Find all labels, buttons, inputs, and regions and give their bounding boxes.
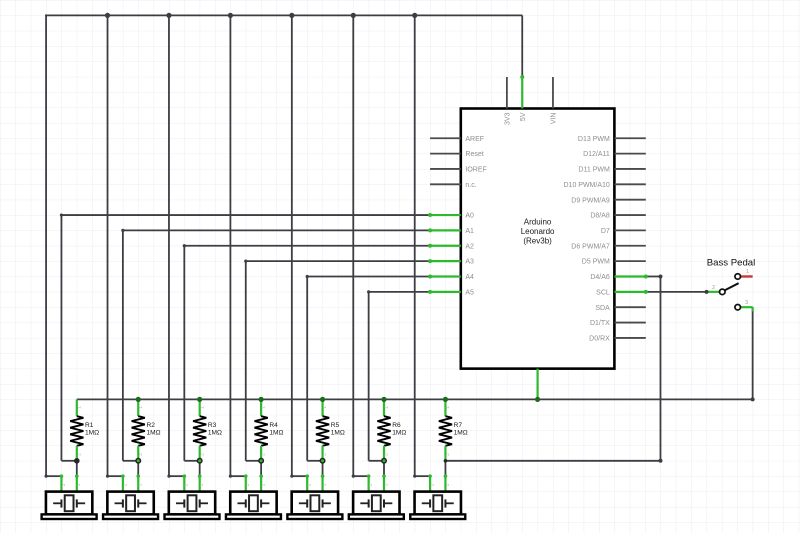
svg-text:1: 1: [384, 406, 389, 409]
svg-text:R7: R7: [454, 422, 463, 429]
svg-text:D13 PWM: D13 PWM: [578, 136, 610, 143]
wire R2 junction down to sensor pin 1: [137, 461, 139, 476]
svg-text:1: 1: [261, 406, 266, 409]
svg-text:R5: R5: [331, 422, 340, 429]
wire 5V bus drop to 5V pin: [521, 15, 523, 77]
wire 5V feed horizontal to sensor 4 left pin: [230, 475, 245, 477]
svg-text:D5 PWM: D5 PWM: [582, 259, 610, 266]
svg-text:2: 2: [122, 483, 127, 486]
piezo sensor 3: [165, 476, 220, 519]
switch pin 2 terminal: [720, 289, 726, 295]
switch lever: [725, 283, 739, 290]
svg-text:2: 2: [245, 483, 250, 486]
svg-text:1: 1: [445, 406, 450, 409]
svg-text:2: 2: [445, 453, 450, 456]
wire A1 horizontal to Arduino: [123, 229, 430, 231]
pin IOREF (left): [430, 167, 487, 174]
IC Arduino Leonardo (Rev3b) body: [461, 109, 615, 369]
svg-text:2: 2: [184, 483, 189, 486]
wire 5V top bus horizontal: [46, 14, 522, 16]
wire A0 horizontal to Arduino: [61, 214, 430, 216]
svg-text:1: 1: [261, 483, 266, 486]
pin D11 PWM (right): [578, 167, 645, 174]
bend dots on 5V feeds at sensor row: [44, 475, 416, 478]
svg-text:A1: A1: [465, 228, 474, 235]
wire A3 stub to R4 bottom junction: [246, 460, 261, 462]
wire 5V feed vertical sensor 3: [168, 15, 170, 476]
svg-text:5V: 5V: [520, 112, 527, 121]
svg-text:1: 1: [199, 406, 204, 409]
pin D6 PWM/A7 (right): [571, 243, 646, 250]
svg-text:Bass Pedal: Bass Pedal: [707, 257, 756, 268]
switch pin 3 terminal: [735, 304, 741, 310]
pin AREF (left): [430, 136, 484, 143]
svg-text:1MΩ: 1MΩ: [454, 430, 468, 437]
svg-text:n.c.: n.c.: [465, 182, 476, 189]
wire D4/A6 stub from pin: [646, 275, 661, 277]
svg-text:A3: A3: [465, 259, 474, 266]
piezo sensor 4: [226, 476, 281, 519]
wire R5 junction down to sensor pin 1: [322, 461, 324, 476]
wire A0 vertical feed: [60, 215, 62, 461]
svg-text:1MΩ: 1MΩ: [85, 430, 99, 437]
pin GND (bottom): [536, 369, 538, 400]
svg-text:2: 2: [322, 453, 327, 456]
svg-text:1: 1: [322, 406, 327, 409]
svg-text:R3: R3: [208, 422, 217, 429]
resistor R1 1M&#937;: [70, 399, 99, 460]
wire 5V feed horizontal to sensor 1 left pin: [46, 475, 61, 477]
svg-text:A0: A0: [465, 213, 474, 220]
svg-text:D0/RX: D0/RX: [589, 336, 610, 343]
piezo sensor 7: [410, 476, 465, 519]
svg-text:1: 1: [76, 483, 81, 486]
svg-text:D4/A6: D4/A6: [590, 274, 610, 281]
svg-text:1: 1: [199, 483, 204, 486]
wire A3 horizontal to Arduino: [246, 260, 430, 262]
wire D4/A6 horizontal to R7 bottom junction: [445, 460, 660, 462]
wire A2 stub to R3 bottom junction: [184, 460, 199, 462]
svg-text:D8/A8: D8/A8: [590, 213, 610, 220]
piezo sensor 6: [349, 476, 404, 519]
wire R6 junction down to sensor pin 1: [383, 461, 385, 476]
wire 5V feed vertical sensor 7: [414, 15, 416, 476]
junction dot SCL / switch pin2 leg: [705, 290, 709, 294]
bend dots on A-wires: [60, 213, 370, 293]
junction dots on 5V top bus: [45, 13, 417, 18]
svg-text:A5: A5: [465, 289, 474, 296]
pin D0/RX (right): [589, 336, 646, 343]
svg-text:R1: R1: [85, 422, 94, 429]
svg-text:3: 3: [745, 300, 748, 306]
wire A4 stub to R5 bottom junction: [307, 460, 322, 462]
wire SCL to switch pin 2: [646, 291, 707, 293]
svg-text:2: 2: [199, 453, 204, 456]
green leg-end dots A0-A5: [428, 213, 432, 294]
pin D4/A6 (right): [590, 274, 645, 281]
pin A5 (left): [430, 289, 474, 296]
svg-text:2: 2: [138, 453, 143, 456]
wire R4 junction down to sensor pin 1: [260, 461, 262, 476]
svg-text:R4: R4: [269, 422, 278, 429]
wire A5 vertical feed: [368, 292, 370, 461]
svg-text:D12/A11: D12/A11: [583, 151, 610, 158]
resistor R7 1M&#937;: [439, 399, 468, 460]
svg-text:1MΩ: 1MΩ: [331, 430, 345, 437]
wire A1 vertical feed: [122, 230, 124, 460]
svg-text:D7: D7: [601, 228, 610, 235]
pin A4 (left): [430, 274, 474, 281]
wire 5V feed vertical sensor 4: [229, 15, 231, 476]
svg-text:Reset: Reset: [465, 151, 483, 158]
green leg-end dots sensor pins: [60, 474, 448, 478]
svg-text:1MΩ: 1MΩ: [392, 430, 406, 437]
svg-text:A4: A4: [465, 274, 474, 281]
svg-text:R6: R6: [392, 422, 401, 429]
pin D8/A8 (right): [590, 213, 645, 220]
svg-text:D11 PWM: D11 PWM: [578, 167, 610, 174]
svg-text:D6 PWM/A7: D6 PWM/A7: [571, 243, 610, 250]
svg-text:A2: A2: [465, 243, 474, 250]
svg-text:2: 2: [76, 453, 81, 456]
svg-text:2: 2: [712, 285, 715, 291]
bend dots D4/A6 route: [658, 274, 662, 462]
wire A4 vertical feed: [306, 276, 308, 460]
svg-text:1MΩ: 1MΩ: [269, 430, 283, 437]
svg-text:1: 1: [445, 483, 450, 486]
piezo sensor 2: [103, 476, 158, 519]
resistor R3 1M&#937;: [193, 399, 222, 460]
resistor R6 1M&#937;: [377, 399, 406, 460]
wire 5V feed vertical sensor 6: [352, 15, 354, 476]
svg-text:2: 2: [261, 453, 266, 456]
pin A1 (left): [430, 228, 474, 235]
wire A5 horizontal to Arduino: [369, 291, 430, 293]
wire R1 junction down to sensor pin 1: [76, 461, 78, 476]
svg-text:2: 2: [384, 453, 389, 456]
pin 5V (top): [520, 77, 527, 121]
svg-text:1: 1: [76, 406, 81, 409]
resistor R2 1M&#937;: [132, 399, 161, 460]
svg-text:1: 1: [138, 483, 143, 486]
svg-text:1: 1: [138, 406, 143, 409]
switch pin 2 leg: [707, 285, 720, 292]
pin D12/A11 (right): [583, 151, 646, 158]
wire 5V feed horizontal to sensor 5 left pin: [292, 475, 307, 477]
wire D4/A6 vertical drop: [659, 276, 661, 460]
svg-text:(Rev3b): (Rev3b): [523, 236, 552, 245]
wire R3 junction down to sensor pin 1: [199, 461, 201, 476]
pin 3V3 (top): [504, 77, 511, 125]
svg-text:2: 2: [368, 483, 373, 486]
wire GND bus horizontal: [77, 398, 753, 400]
pin A3 (left): [430, 259, 474, 266]
wire 5V feed vertical sensor 1: [45, 15, 47, 476]
svg-text:Leonardo: Leonardo: [521, 227, 555, 236]
resistor R4 1M&#937;: [255, 399, 284, 460]
pin D5 PWM (right): [582, 259, 646, 266]
svg-text:3V3: 3V3: [504, 112, 511, 125]
label Arduino Leonardo (Rev3b): [521, 217, 555, 245]
svg-text:SCL: SCL: [596, 289, 610, 296]
svg-text:R2: R2: [146, 422, 155, 429]
bend dot GND bus / switch riser: [751, 397, 755, 401]
wire 5V feed horizontal to sensor 7 left pin: [415, 475, 430, 477]
green leg-end dots D4/A6 and SCL: [644, 274, 648, 293]
pin SCL (right): [596, 289, 646, 296]
piezo sensor 5: [287, 476, 342, 519]
svg-text:1: 1: [322, 483, 327, 486]
pin n.c. (left): [430, 182, 477, 189]
svg-text:IOREF: IOREF: [465, 167, 486, 174]
svg-text:2: 2: [429, 483, 434, 486]
pin A0 (left): [430, 213, 474, 220]
green leg-end dot 5V: [520, 75, 524, 79]
pin D10 PWM/A10 (right): [564, 182, 646, 189]
wire A5 stub to R6 bottom junction: [369, 460, 384, 462]
svg-text:1MΩ: 1MΩ: [146, 430, 160, 437]
svg-text:D1/TX: D1/TX: [590, 320, 610, 327]
resistor R5 1M&#937;: [316, 399, 345, 460]
svg-text:D9 PWM/A9: D9 PWM/A9: [571, 197, 610, 204]
pin SDA (right): [595, 305, 645, 312]
switch pin 3 leg: [741, 300, 753, 312]
junction dots at resistor bottoms: [74, 458, 447, 464]
switch pin 1 leg (red, unconnected): [741, 269, 753, 276]
pin D9 PWM/A9 (right): [571, 197, 646, 204]
wire 5V feed horizontal to sensor 6 left pin: [353, 475, 368, 477]
svg-text:AREF: AREF: [465, 136, 484, 143]
svg-text:VIN: VIN: [551, 113, 558, 125]
pin VIN (top): [551, 77, 558, 124]
pin D13 PWM (right): [578, 136, 646, 143]
pin Reset (left): [430, 151, 484, 158]
wire 5V feed vertical sensor 5: [291, 15, 293, 476]
svg-text:1: 1: [746, 269, 749, 275]
svg-text:1: 1: [383, 483, 388, 486]
wire 5V feed horizontal to sensor 3 left pin: [169, 475, 184, 477]
wire 5V feed horizontal to sensor 2 left pin: [108, 475, 123, 477]
pin D7 (right): [601, 228, 646, 235]
svg-text:2: 2: [61, 483, 66, 486]
wire A2 vertical feed: [183, 246, 185, 461]
wire A4 horizontal to Arduino: [307, 275, 430, 277]
svg-text:2: 2: [307, 483, 312, 486]
wire 5V feed vertical sensor 2: [107, 15, 109, 476]
pin A2 (left): [430, 243, 474, 250]
piezo sensor 1: [42, 476, 97, 519]
wire A0 stub to R1 bottom junction: [61, 460, 76, 462]
wire A2 horizontal to Arduino: [184, 245, 430, 247]
svg-text:Arduino: Arduino: [524, 217, 552, 226]
junction dots on GND bus (dark green): [136, 397, 541, 402]
svg-text:1MΩ: 1MΩ: [208, 430, 222, 437]
svg-text:D10 PWM/A10: D10 PWM/A10: [564, 182, 610, 189]
switch pin 1 terminal: [735, 274, 741, 280]
wire A3 vertical feed: [245, 261, 247, 461]
pin D1/TX (right): [590, 320, 646, 327]
wire GND bus riser to switch pin 3: [752, 307, 754, 399]
wire A1 stub to R2 bottom junction: [123, 460, 138, 462]
svg-text:SDA: SDA: [595, 305, 610, 312]
wire R7 junction down to sensor pin 1: [444, 461, 446, 476]
